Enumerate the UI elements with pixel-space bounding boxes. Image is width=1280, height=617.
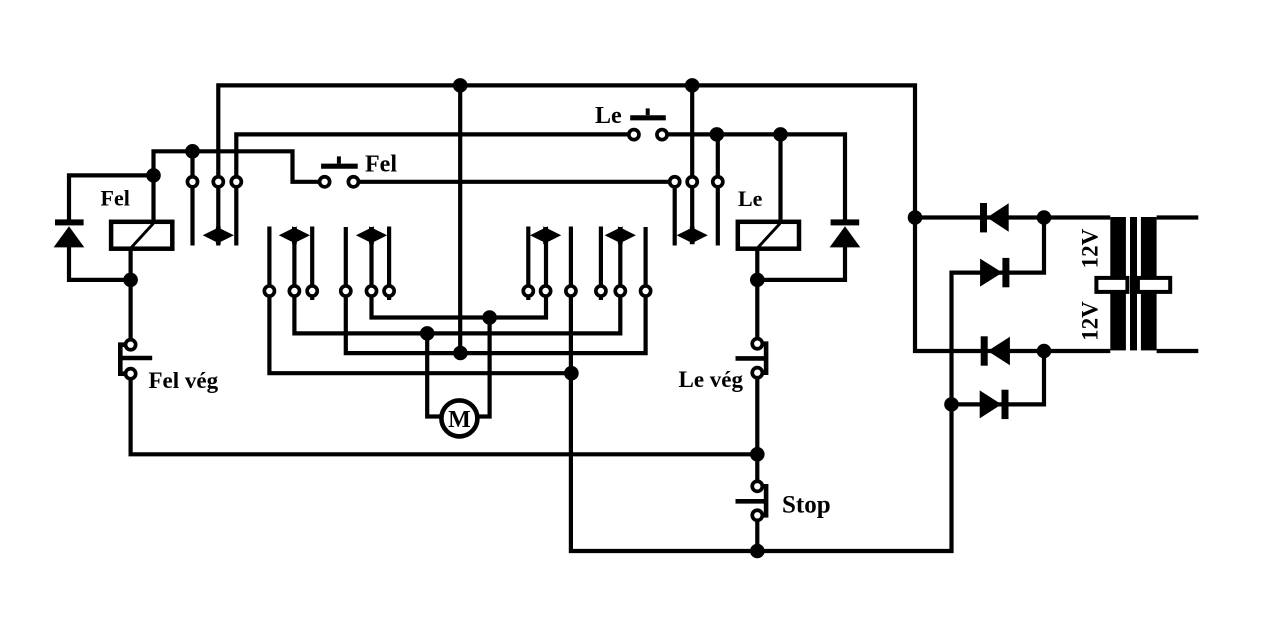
coupling diamond group F [677, 226, 708, 244]
wire Stop bottom contact down to bottom rail [755, 515, 759, 551]
wire A-right vertical up to Le-button line y=134 across to Le button left contact [236, 134, 634, 245]
node y371 rail / D-right [564, 366, 579, 381]
wire Fel vég bottom contact down, bottom-left rail to Le vég node [131, 374, 758, 455]
svg-text:Le: Le [738, 186, 763, 211]
contact D-left [523, 286, 533, 296]
wire feed vertical x=460 from top rail to y=351 rail [458, 85, 462, 353]
svg-text:12V: 12V [1078, 301, 1103, 341]
wire C-mid branch down to y=316.2 rail over and up to D-mid [372, 227, 547, 318]
node feed / y351 rail [453, 346, 468, 361]
wire B-right stub [310, 227, 314, 301]
contact Le button left [629, 130, 639, 140]
svg-text:12V: 12V [1078, 228, 1103, 268]
wire top rail from A-mid up, across to right drop, down and over to D3 row [218, 85, 1110, 351]
contact Le vég top [752, 339, 762, 349]
contact F-mid [687, 177, 697, 187]
contact Fel vég bottom [126, 369, 136, 379]
wire bridge right leg D3 to D4 [952, 351, 1045, 404]
pushbutton Le cap [630, 108, 666, 117]
wire C-left branch down to y=351 rail over and up to E-right [346, 227, 646, 353]
node bottom rail / Stop [750, 544, 765, 559]
node D4 left / bottom leg [944, 397, 959, 412]
wire transformer bottom stub [1157, 349, 1199, 353]
bridge diode D4 (points right) [980, 390, 1009, 419]
node right feed / D1 row [908, 210, 923, 225]
coupling diamond group A [203, 226, 234, 244]
contact F-left [670, 177, 680, 187]
node D1/D2 right [1037, 210, 1052, 225]
wire Le snubber bottom link [757, 247, 845, 280]
node y134 / Le coil top [773, 127, 788, 142]
node top rail / feed [453, 78, 468, 93]
contact C-right [384, 286, 394, 296]
bridge diode D1 (points left) [980, 203, 1009, 232]
wire Fel coil top: vertical x=153.5 up to y=152 rail, over and down to Fel button left contact [154, 151, 325, 219]
contact C-mid [366, 286, 376, 296]
coupling diamond group D [530, 226, 561, 244]
wire C-right stub [387, 227, 391, 301]
contact D-right [566, 286, 576, 296]
wire motor right lead [475, 318, 490, 417]
node Le coil bottom / diode [750, 273, 765, 288]
relay coil Le [738, 222, 799, 249]
wire Fel diode branch: left from coil-top node, down to diode bar [69, 175, 154, 219]
wire B-mid branch down to y=332 rail over and up to E-mid [294, 227, 620, 333]
node Fel coil bottom / diode [123, 273, 138, 288]
node Fel coil top / diode [146, 168, 161, 183]
node motor right / y316 rail [482, 310, 497, 325]
contact A-left [187, 177, 197, 187]
wire Le relay coil line: from Le button right contact to corner down to Le diode bar [662, 134, 845, 219]
wire Fel coil bottom pin down to Fel vég top contact [129, 250, 133, 345]
wire D-left stub [526, 227, 530, 301]
contact C-left [341, 286, 351, 296]
contact A-mid [213, 177, 223, 187]
node motor left / y332 rail [420, 326, 435, 341]
svg-text:Le: Le [595, 103, 622, 129]
contact Fel vég top [126, 340, 136, 350]
contact Fel button right [348, 177, 358, 187]
motor M1 [441, 400, 477, 436]
battery 12V upper/lower plates block [1096, 217, 1170, 350]
contact Le vég bottom [752, 368, 762, 378]
contact D-mid [541, 286, 551, 296]
svg-text:Fel: Fel [101, 185, 130, 210]
wire Fel diode bottom to coil bottom node [69, 247, 131, 280]
contact E-mid [615, 286, 625, 296]
pushbutton Fel cap [321, 156, 358, 166]
bridge diode D3 (points left) [981, 336, 1010, 365]
contact A-right [231, 177, 241, 187]
wire D-right vertical down, bottom rail, up left bridge leg, D2 row, up to D1 row [571, 218, 1044, 552]
coupling diamond group B [279, 226, 310, 244]
svg-text:Fel: Fel [365, 152, 397, 178]
node bottom-left rail / Le vég chain [750, 447, 765, 462]
svg-text:Stop: Stop [782, 492, 831, 519]
wire motor left lead [427, 333, 444, 416]
wire B-left contact branch down to y=371 rail over to D-right vertical [269, 227, 571, 374]
contact circles [126, 130, 763, 521]
diode D-Le (snubber across Le coil) [830, 219, 861, 247]
wire E-left stub [599, 227, 603, 301]
node y134 / F-right [710, 127, 725, 142]
coupling diamond group C [356, 226, 387, 244]
coupling diamond group E [605, 226, 636, 244]
contact E-right [641, 286, 651, 296]
contact Stop top [752, 481, 762, 491]
svg-text:Le vég: Le vég [679, 367, 744, 392]
limit switch Fel vég bracket [120, 345, 152, 374]
diode D-Fel (snubber across Fel coil) [54, 219, 85, 247]
node top rail / F-mid [685, 78, 700, 93]
svg-text:M: M [448, 407, 471, 433]
svg-text:Fel vég: Fel vég [149, 368, 219, 393]
wire F-mid vertical from top rail down through contact to diamond [690, 85, 694, 244]
contact F-right [713, 177, 723, 187]
node D3/D4 right [1037, 344, 1052, 359]
bridge diode D2 (points right) [980, 258, 1009, 287]
limit switch Le vég bracket [736, 344, 767, 373]
wire Le vég bottom contact down to Stop top contact [755, 373, 759, 487]
contact B-right [307, 286, 317, 296]
contact B-left [264, 286, 274, 296]
wire Fel button output to F-left contact [353, 180, 674, 184]
wire Le coil top pin from y=134 rail [778, 134, 782, 219]
pushbutton Stop bracket [736, 486, 767, 515]
contact E-left [596, 286, 606, 296]
wire F-left vertical below contact [673, 182, 677, 246]
contact B-mid [289, 286, 299, 296]
contact Fel button left [320, 177, 330, 187]
wire bridge D1 row from right-feed node to battery block [915, 215, 1110, 219]
wire F-right vertical from y=134 line down through contact [716, 134, 720, 245]
contact Stop bottom [752, 510, 762, 520]
wire A-left vertical from y=152 rail down through contact circle [190, 151, 194, 245]
wire Le coil bottom pin down to Le vég top contact [755, 250, 759, 344]
contact Le button right [657, 130, 667, 140]
node y152 / A-left [185, 144, 200, 159]
wire transformer top stub [1157, 215, 1199, 219]
relay coil Fel [111, 222, 172, 249]
